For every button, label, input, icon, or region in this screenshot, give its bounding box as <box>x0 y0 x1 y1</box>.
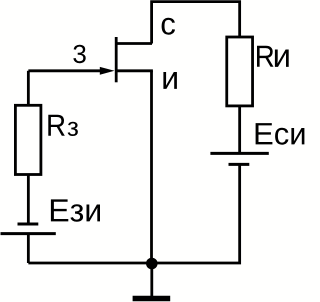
label Еси <box>256 123 305 145</box>
label и (source pin) <box>163 72 177 89</box>
label Rз part R <box>48 115 65 136</box>
label Ези <box>51 199 100 221</box>
battery Еси short plate <box>229 163 250 166</box>
ground <box>133 296 171 302</box>
transistor VT1 (JFET, pins з/с/и) <box>28 37 153 82</box>
battery Ези long plate <box>1 232 56 235</box>
node junction dot <box>146 258 158 270</box>
gate arrowhead <box>100 67 115 75</box>
wire Rз to Ези <box>27 175 30 225</box>
wire Ези to bottom rail <box>27 234 30 263</box>
wire top rail (drain up, across, down to Rи) <box>152 2 240 44</box>
drain lead <box>116 42 152 45</box>
resistor Rз <box>15 105 41 174</box>
wire bottom rail and riser to Еси <box>28 164 239 263</box>
label Rз part з <box>68 122 78 136</box>
battery Ези short plate <box>18 223 39 226</box>
wire source down to bottom node <box>150 71 153 263</box>
label с (drain pin) <box>162 18 175 35</box>
label Rи part и <box>275 50 289 67</box>
wire ground stem <box>150 263 153 296</box>
wire Rи to Еси <box>238 106 241 153</box>
label Rи part R <box>257 46 274 67</box>
label з (gate pin) <box>73 45 85 64</box>
source lead <box>116 69 153 72</box>
battery Еси long plate <box>210 152 268 155</box>
channel bar <box>115 37 118 82</box>
gate lead <box>28 69 100 72</box>
resistor Rи <box>227 37 253 106</box>
wire gate to Rз <box>27 71 30 106</box>
